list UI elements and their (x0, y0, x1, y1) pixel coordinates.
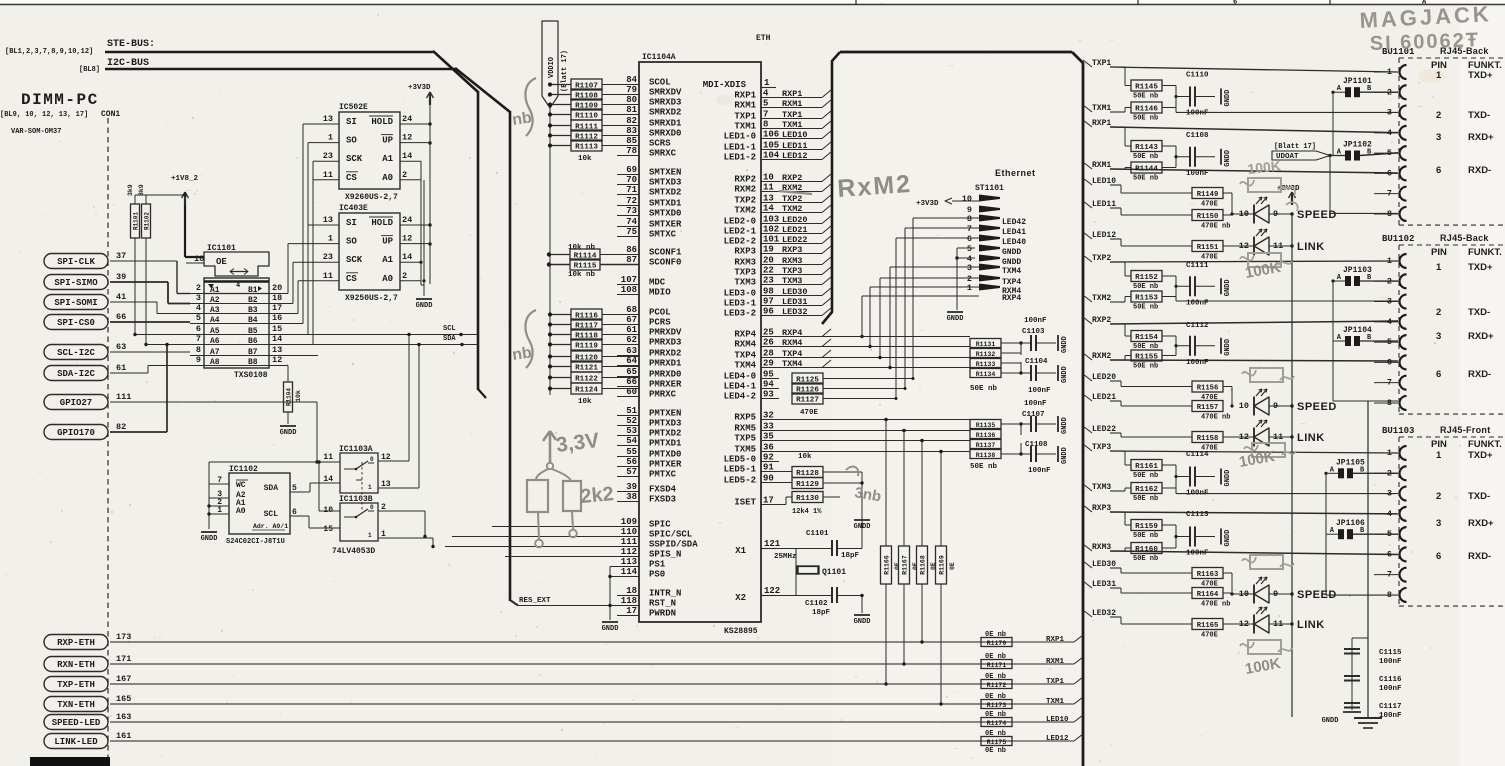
svg-text:72: 72 (626, 196, 637, 206)
svg-text:R1165: R1165 (1197, 622, 1219, 630)
svg-text:C1102: C1102 (805, 600, 828, 608)
svg-text:PS1: PS1 (649, 560, 666, 570)
svg-text:9: 9 (196, 355, 201, 365)
svg-text:C1116: C1116 (1379, 676, 1402, 684)
svg-text:SMTXC: SMTXC (649, 230, 677, 240)
svg-text:GNDD: GNDD (854, 618, 871, 626)
svg-text:50E nb: 50E nb (1133, 532, 1158, 540)
svg-text:PIN: PIN (1431, 247, 1447, 258)
svg-text:14: 14 (402, 151, 412, 161)
svg-text:RXM1: RXM1 (1092, 161, 1111, 170)
svg-text:R1110: R1110 (575, 112, 598, 120)
svg-text:A1: A1 (382, 255, 393, 265)
svg-text:108: 108 (621, 285, 637, 295)
svg-text:56: 56 (626, 457, 637, 467)
svg-text:17: 17 (272, 303, 282, 313)
svg-text:5: 5 (967, 244, 972, 254)
svg-text:SPI-CS0: SPI-CS0 (57, 318, 95, 328)
svg-text:C1107: C1107 (1022, 411, 1045, 419)
svg-text:TXM1: TXM1 (734, 122, 756, 132)
svg-text:57: 57 (626, 467, 637, 477)
svg-text:6: 6 (967, 234, 972, 244)
svg-text:61: 61 (626, 325, 637, 335)
svg-text:100nF: 100nF (1379, 658, 1402, 666)
svg-text:X1: X1 (735, 546, 746, 556)
svg-text:14: 14 (402, 252, 412, 262)
svg-text:3k9: 3k9 (138, 184, 145, 196)
svg-text:SCOL: SCOL (649, 78, 671, 88)
svg-text:R1171: R1171 (987, 662, 1007, 669)
svg-text:RXP4: RXP4 (734, 330, 756, 340)
svg-text:LED12: LED12 (1046, 735, 1069, 743)
svg-text:109: 109 (621, 517, 637, 527)
svg-text:C1111: C1111 (1186, 262, 1209, 270)
svg-text:PIN: PIN (1431, 439, 1447, 450)
svg-text:TXM3: TXM3 (734, 278, 756, 288)
svg-text:10k nb: 10k nb (568, 271, 596, 279)
svg-text:RXM3: RXM3 (734, 258, 756, 268)
svg-text:0E: 0E (912, 562, 919, 570)
svg-text:PMTXD2: PMTXD2 (649, 429, 681, 439)
svg-text:PMRXD3: PMRXD3 (649, 338, 681, 348)
svg-text:B8: B8 (248, 358, 258, 367)
svg-text:R1168: R1168 (920, 555, 927, 575)
svg-text:65: 65 (626, 367, 637, 377)
svg-text:PMTXD0: PMTXD0 (649, 450, 681, 460)
svg-text:100nF: 100nF (1024, 317, 1047, 325)
svg-text:100nF: 100nF (1028, 467, 1051, 475)
svg-text:C1101: C1101 (806, 530, 829, 538)
svg-text:100nF: 100nF (1028, 387, 1051, 395)
svg-text:12k4 1%: 12k4 1% (792, 508, 822, 516)
svg-text:R1134: R1134 (976, 371, 996, 378)
svg-text:52: 52 (626, 416, 637, 426)
svg-text:51: 51 (626, 406, 637, 416)
svg-text:2: 2 (196, 283, 201, 293)
svg-text:SMTXEN: SMTXEN (649, 168, 681, 178)
svg-text:A0: A0 (382, 274, 393, 284)
svg-text:R1129: R1129 (796, 481, 819, 489)
svg-text:50E nb: 50E nb (1133, 153, 1158, 161)
svg-text:2: 2 (402, 170, 407, 180)
svg-text:SMTXD2: SMTXD2 (649, 188, 681, 198)
svg-text:66: 66 (626, 377, 637, 387)
svg-text:C1110: C1110 (1186, 72, 1209, 80)
svg-text:GNDD: GNDD (1061, 417, 1069, 434)
svg-text:SO: SO (346, 136, 357, 146)
svg-text:R1119: R1119 (575, 342, 598, 350)
svg-text:12: 12 (1239, 619, 1249, 629)
svg-text:B3: B3 (248, 306, 258, 315)
svg-text:CS: CS (346, 173, 357, 183)
svg-text:100nF: 100nF (1379, 712, 1402, 720)
svg-text:X9260US-2,7: X9260US-2,7 (345, 193, 398, 202)
svg-text:LED4-0: LED4-0 (724, 372, 756, 382)
svg-text:R1102: R1102 (144, 212, 151, 230)
svg-text:[BL8]: [BL8] (79, 66, 100, 74)
svg-text:[BL1,2,3,7,8,9,10,12]: [BL1,2,3,7,8,9,10,12] (5, 48, 93, 56)
svg-text:LED5-2: LED5-2 (724, 476, 756, 486)
svg-text:50E nb: 50E nb (1133, 343, 1158, 351)
svg-text:R1156: R1156 (1197, 384, 1219, 392)
svg-text:nb: nb (511, 344, 533, 364)
svg-text:SI: SI (346, 117, 357, 127)
svg-text:SPI-CLK: SPI-CLK (57, 257, 95, 267)
svg-text:1: 1 (328, 133, 333, 143)
svg-text:R1175: R1175 (987, 739, 1007, 746)
svg-text:112: 112 (621, 547, 637, 557)
svg-text:GPIO170: GPIO170 (57, 428, 95, 438)
svg-text:470E nb: 470E nb (1201, 414, 1230, 422)
svg-text:5: 5 (196, 313, 201, 323)
svg-text:100nF: 100nF (1024, 400, 1047, 408)
svg-text:165: 165 (116, 694, 131, 704)
svg-text:BU1102: BU1102 (1382, 234, 1414, 244)
svg-text:10k: 10k (798, 453, 812, 461)
svg-text:SCK: SCK (346, 255, 363, 265)
svg-text:TXM4: TXM4 (1002, 267, 1021, 276)
svg-text:RXM1: RXM1 (734, 101, 756, 111)
svg-text:171: 171 (116, 654, 131, 664)
svg-text:RXD-: RXD- (1468, 551, 1491, 562)
svg-text:R1143: R1143 (1135, 144, 1158, 152)
svg-text:84: 84 (626, 75, 637, 85)
svg-text:RXP5: RXP5 (734, 413, 756, 423)
svg-text:LED5-0: LED5-0 (724, 455, 756, 465)
svg-text:14: 14 (272, 334, 282, 344)
svg-text:SPEED: SPEED (1297, 401, 1337, 413)
svg-text:VAR-SOM-OM37: VAR-SOM-OM37 (11, 128, 61, 136)
svg-text:470E: 470E (800, 409, 819, 417)
svg-text:100nF: 100nF (1186, 170, 1209, 178)
svg-text:10: 10 (1239, 209, 1249, 219)
svg-text:PMTXER: PMTXER (649, 460, 682, 470)
svg-text:R1101: R1101 (133, 212, 140, 230)
svg-text:R1163: R1163 (1197, 571, 1219, 579)
svg-text:S24C02CI-J8T1U: S24C02CI-J8T1U (226, 538, 285, 546)
svg-text:LINK: LINK (1297, 241, 1325, 253)
svg-text:GNDD: GNDD (280, 429, 297, 437)
svg-text:RXM2: RXM2 (1092, 352, 1111, 361)
svg-text:RXP4: RXP4 (1002, 294, 1021, 303)
svg-text:10k: 10k (578, 398, 592, 406)
svg-text:RXN-ETH: RXN-ETH (57, 660, 95, 670)
svg-text:SDA-I2C: SDA-I2C (57, 369, 95, 379)
svg-text:LED3-2: LED3-2 (724, 309, 756, 319)
svg-text:LED2-0: LED2-0 (724, 217, 756, 227)
svg-text:R1172: R1172 (987, 682, 1007, 689)
svg-text:PMRXD0: PMRXD0 (649, 370, 681, 380)
svg-text:GNDD: GNDD (1224, 90, 1232, 107)
svg-text:B6: B6 (248, 337, 258, 346)
svg-text:nb: nb (511, 109, 533, 129)
svg-text:GPIO27: GPIO27 (60, 398, 92, 408)
svg-text:R1167: R1167 (902, 555, 909, 575)
svg-text:LED40: LED40 (1002, 238, 1026, 247)
svg-text:12: 12 (272, 355, 282, 365)
svg-text:2: 2 (1436, 491, 1441, 502)
svg-text:1: 1 (368, 484, 372, 491)
svg-text:82: 82 (116, 422, 126, 432)
svg-text:PMRXER: PMRXER (649, 380, 682, 390)
svg-text:SMTXD0: SMTXD0 (649, 209, 681, 219)
svg-text:B4: B4 (248, 316, 258, 325)
svg-text:R1151: R1151 (1197, 244, 1219, 252)
svg-text:R1155: R1155 (1135, 353, 1158, 361)
svg-text:X2: X2 (735, 593, 746, 603)
svg-text:11: 11 (323, 453, 333, 462)
svg-text:TXM2: TXM2 (1092, 294, 1111, 303)
svg-text:SPI-SOMI: SPI-SOMI (54, 298, 97, 308)
svg-text:X9250US-2,7: X9250US-2,7 (345, 294, 398, 303)
svg-text:TXP1: TXP1 (734, 112, 756, 122)
svg-text:61: 61 (116, 363, 126, 373)
svg-text:SCONF1: SCONF1 (649, 248, 682, 258)
svg-text:1: 1 (1436, 70, 1442, 81)
svg-text:SPIC: SPIC (649, 520, 671, 530)
svg-text:PCOL: PCOL (649, 308, 671, 318)
svg-text:2k2: 2k2 (580, 483, 615, 508)
svg-text:18: 18 (272, 293, 282, 303)
svg-text:RXD-: RXD- (1468, 369, 1491, 380)
svg-text:100nF: 100nF (1186, 110, 1209, 118)
svg-text:TXD-: TXD- (1468, 110, 1490, 121)
svg-text:C1112: C1112 (1186, 322, 1209, 330)
svg-text:50E nb: 50E nb (1133, 304, 1158, 312)
svg-text:R1166: R1166 (884, 555, 891, 575)
svg-text:PMRXD2: PMRXD2 (649, 349, 681, 359)
svg-text:TXM2: TXM2 (734, 206, 756, 216)
svg-text:TXP5: TXP5 (734, 434, 756, 444)
svg-text:R1158: R1158 (1197, 435, 1219, 443)
svg-text:GNDD: GNDD (1002, 248, 1021, 257)
svg-text:11: 11 (323, 271, 333, 281)
svg-text:173: 173 (116, 632, 131, 642)
svg-text:LED3-0: LED3-0 (724, 289, 756, 299)
svg-text:R1128: R1128 (796, 470, 819, 478)
svg-text:C1103: C1103 (1022, 328, 1045, 336)
svg-text:100nF: 100nF (1186, 550, 1209, 558)
svg-text:GNDD: GNDD (602, 625, 619, 633)
svg-text:CON1: CON1 (101, 110, 120, 119)
svg-text:SMTXER: SMTXER (649, 220, 682, 230)
svg-text:R1131: R1131 (976, 341, 996, 348)
svg-text:R1174: R1174 (987, 720, 1007, 727)
svg-text:[Blatt 17]: [Blatt 17] (1274, 143, 1316, 151)
svg-text:LED2-2: LED2-2 (724, 237, 756, 247)
svg-text:167: 167 (116, 674, 131, 684)
svg-text:110: 110 (621, 527, 637, 537)
svg-text:18pF: 18pF (812, 609, 831, 617)
svg-text:0: 0 (370, 456, 374, 463)
svg-text:24: 24 (402, 114, 412, 124)
svg-text:UP: UP (382, 237, 393, 247)
svg-text:SCK: SCK (346, 154, 363, 164)
svg-text:0E: 0E (949, 562, 956, 570)
svg-text:SDA: SDA (264, 484, 279, 493)
svg-text:R1121: R1121 (575, 364, 598, 372)
svg-text:18: 18 (626, 586, 637, 596)
svg-text:HOLD: HOLD (371, 117, 393, 127)
svg-text:63: 63 (626, 346, 637, 356)
svg-text:18pF: 18pF (841, 552, 860, 560)
svg-text:ST1101: ST1101 (975, 184, 1004, 193)
svg-text:RXD+: RXD+ (1468, 518, 1494, 529)
svg-text:RXP3: RXP3 (734, 247, 756, 257)
svg-text:RXM3: RXM3 (1092, 543, 1111, 552)
svg-text:GNDD: GNDD (854, 523, 871, 531)
svg-text:23: 23 (323, 252, 333, 262)
svg-text:R1113: R1113 (575, 143, 598, 151)
svg-text:FXSD4: FXSD4 (649, 485, 677, 495)
svg-text:R1161: R1161 (1135, 463, 1158, 471)
svg-text:R1159: R1159 (1135, 523, 1158, 531)
svg-text:8: 8 (967, 214, 972, 224)
svg-text:RXP1: RXP1 (734, 91, 756, 101)
svg-text:3k9: 3k9 (127, 184, 134, 196)
svg-text:R1137: R1137 (976, 442, 996, 449)
svg-text:TXP-ETH: TXP-ETH (57, 680, 95, 690)
svg-text:121: 121 (764, 539, 781, 549)
svg-text:R1164: R1164 (1197, 591, 1219, 599)
svg-text:122: 122 (764, 586, 780, 596)
svg-text:B5: B5 (248, 327, 258, 336)
svg-text:10k: 10k (295, 390, 302, 402)
svg-text:UP: UP (382, 136, 393, 146)
svg-text:+1V8_2: +1V8_2 (171, 175, 199, 183)
svg-text:FUNKT.: FUNKT. (1468, 439, 1502, 450)
svg-text:C1113: C1113 (1186, 511, 1209, 519)
svg-text:470E: 470E (1201, 254, 1218, 262)
svg-text:RXP1: RXP1 (1046, 636, 1065, 644)
svg-text:GNDD: GNDD (1061, 366, 1069, 383)
svg-text:1: 1 (328, 234, 333, 244)
svg-text:C1104: C1104 (1025, 358, 1048, 366)
svg-text:Ethernet: Ethernet (995, 168, 1036, 178)
svg-text:SPEED-LED: SPEED-LED (52, 718, 101, 728)
svg-text:GNDD: GNDD (1224, 530, 1232, 547)
svg-text:R1136: R1136 (976, 432, 996, 439)
svg-text:6: 6 (1436, 551, 1441, 562)
svg-text:3: 3 (1436, 518, 1441, 529)
svg-text:PMTXD3: PMTXD3 (649, 419, 681, 429)
svg-text:TXD-: TXD- (1468, 491, 1490, 502)
svg-text:3: 3 (967, 263, 972, 273)
svg-text:470E: 470E (1201, 632, 1218, 640)
svg-text:R1157: R1157 (1197, 404, 1219, 412)
svg-text:13: 13 (323, 114, 333, 124)
svg-text:60: 60 (626, 387, 637, 397)
svg-text:RXP-ETH: RXP-ETH (57, 638, 95, 648)
svg-text:74: 74 (626, 217, 637, 227)
svg-text:TXP2: TXP2 (1092, 254, 1111, 263)
svg-text:GNDD: GNDD (1224, 339, 1232, 356)
svg-text:RXM2: RXM2 (734, 185, 756, 195)
svg-text:PMRXC: PMRXC (649, 390, 677, 400)
svg-text:R1150: R1150 (1197, 213, 1219, 221)
svg-text:10: 10 (962, 194, 972, 204)
svg-text:0: 0 (370, 504, 374, 511)
svg-text:R1152: R1152 (1135, 274, 1158, 282)
svg-text:C1115: C1115 (1379, 649, 1402, 657)
svg-text:SCL: SCL (443, 325, 456, 333)
svg-text:50E nb: 50E nb (1133, 93, 1158, 101)
svg-text:LED42: LED42 (1002, 218, 1026, 227)
svg-text:SMRXC: SMRXC (649, 149, 677, 159)
svg-text:VDDIO: VDDIO (548, 57, 556, 78)
svg-text:2: 2 (1436, 307, 1441, 318)
svg-text:RST_N: RST_N (649, 599, 676, 609)
svg-text:LINK: LINK (1297, 432, 1325, 444)
svg-text:50E nb: 50E nb (1133, 115, 1158, 123)
svg-text:MDC: MDC (649, 278, 666, 288)
svg-text:41: 41 (116, 292, 126, 302)
svg-text:SO: SO (346, 237, 357, 247)
svg-text:100nF: 100nF (1379, 685, 1402, 693)
svg-text:161: 161 (116, 731, 131, 741)
svg-text:I2C-BUS: I2C-BUS (107, 58, 149, 69)
svg-text:LED1-1: LED1-1 (724, 143, 757, 153)
svg-text:1: 1 (1436, 450, 1442, 461)
svg-text:BU1103: BU1103 (1382, 426, 1414, 436)
svg-text:0E nb: 0E nb (985, 747, 1006, 755)
svg-text:3: 3 (1436, 132, 1441, 143)
svg-text:R1115: R1115 (574, 262, 597, 270)
svg-text:RJ45-Back: RJ45-Back (1440, 233, 1489, 243)
svg-text:38: 38 (626, 492, 637, 502)
svg-text:RXD+: RXD+ (1468, 132, 1494, 143)
svg-text:R1127: R1127 (796, 396, 819, 404)
svg-text:0E nb: 0E nb (985, 730, 1006, 738)
svg-text:MDI-XDIS: MDI-XDIS (703, 80, 747, 90)
svg-text:A4: A4 (210, 316, 220, 325)
svg-text:RXP2: RXP2 (734, 175, 756, 185)
svg-text:CS: CS (346, 274, 357, 284)
svg-text:6: 6 (196, 324, 201, 334)
svg-text:0E nb: 0E nb (985, 711, 1006, 719)
svg-text:IC1104A: IC1104A (642, 53, 676, 62)
svg-text:FXSD3: FXSD3 (649, 495, 676, 505)
svg-text:RxM2: RxM2 (836, 170, 912, 203)
svg-text:50E nb: 50E nb (1133, 175, 1158, 183)
svg-text:13: 13 (323, 215, 333, 225)
svg-text:A2: A2 (210, 296, 220, 305)
svg-text:A5: A5 (210, 327, 220, 336)
svg-text:B1: B1 (248, 286, 258, 295)
svg-text:16: 16 (272, 313, 282, 323)
svg-text:24: 24 (402, 215, 412, 225)
svg-text:IC403E: IC403E (339, 204, 368, 213)
svg-text:R1130: R1130 (796, 495, 819, 503)
svg-text:INTR_N: INTR_N (649, 589, 681, 599)
svg-text:LED4-1: LED4-1 (724, 382, 757, 392)
svg-text:1: 1 (764, 78, 770, 88)
svg-text:RXD+: RXD+ (1468, 331, 1494, 342)
svg-text:0E nb: 0E nb (985, 631, 1006, 639)
svg-text:TXM3: TXM3 (1092, 483, 1111, 492)
svg-text:R1122: R1122 (575, 375, 598, 383)
svg-text:PMRXD1: PMRXD1 (649, 359, 682, 369)
svg-text:A8: A8 (210, 358, 220, 367)
svg-text:GNDD: GNDD (1322, 717, 1339, 725)
svg-text:TXD+: TXD+ (1468, 450, 1493, 461)
svg-text:C1117: C1117 (1379, 703, 1402, 711)
svg-text:69: 69 (626, 165, 637, 175)
svg-text:50E nb: 50E nb (1133, 555, 1158, 563)
svg-text:R1133: R1133 (976, 361, 996, 368)
svg-text:66: 66 (116, 312, 126, 322)
svg-text:7: 7 (967, 224, 972, 234)
